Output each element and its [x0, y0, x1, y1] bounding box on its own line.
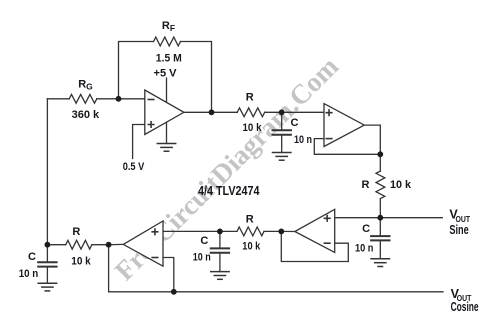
resistor RF zigzag: [154, 37, 181, 46]
resistor R1 10k zigzag: [237, 108, 265, 117]
svg-text:Cosine: Cosine: [451, 300, 479, 314]
svg-text:R: R: [246, 214, 254, 226]
svg-text:C: C: [291, 117, 299, 129]
svg-text:10 k: 10 k: [242, 241, 261, 253]
capacitor C3 stem lower: [219, 253, 221, 272]
U1B minus symbol: [326, 138, 332, 140]
node: U1D output: [106, 242, 112, 248]
wire: U1A output row to R 10k: [184, 111, 237, 113]
U1D minus symbol: [152, 257, 158, 259]
wire: sine output row: [335, 217, 443, 219]
svg-text:10 k: 10 k: [243, 122, 263, 134]
wire: cosine output row: [109, 291, 443, 293]
ground symbol C2: [371, 259, 389, 267]
ground symbol U1A: [157, 144, 175, 152]
wire: RG to op-amp U1A inverting input: [97, 98, 145, 100]
wire: R1 to op-amp U1B non-inverting input: [265, 111, 324, 113]
capacitor C2 stem lower: [379, 241, 381, 259]
svg-text:0.5 V: 0.5 V: [123, 161, 145, 173]
ground symbol C1: [273, 153, 291, 161]
wire: R3 to U1C output node: [264, 230, 281, 232]
node: RG/RF junction: [116, 96, 122, 102]
svg-text:360 k: 360 k: [72, 109, 100, 121]
wire: U1C output to node: [281, 230, 295, 232]
U1C plus symbol: [324, 216, 330, 222]
svg-text:R: R: [362, 179, 370, 191]
svg-text:4/4 TLV2474: 4/4 TLV2474: [198, 184, 260, 198]
wire: U1B inverting feedback loop: [314, 139, 380, 155]
wire: RF feedback loop right vertical: [181, 42, 212, 113]
ground symbol C3: [211, 272, 229, 280]
capacitor C3 plates: [211, 248, 229, 252]
wire: U1D output to node: [109, 243, 124, 245]
capacitor C4 plates: [38, 262, 56, 266]
node: sine output: [377, 215, 383, 221]
capacitor C1 plates: [273, 130, 291, 134]
wire: left rail vertical: [46, 99, 48, 245]
node: U1C output: [278, 229, 284, 235]
wire: U1B output down to node: [364, 125, 380, 154]
U1A plus symbol: [148, 122, 154, 128]
wire: RG row left: [47, 98, 69, 100]
U1B plus symbol: [326, 110, 332, 116]
svg-text:C: C: [362, 223, 370, 235]
op-amp U1B: [324, 104, 364, 147]
U1C minus symbol: [324, 242, 330, 244]
wire: U1A non-inverting input to 0.5V: [133, 125, 145, 159]
svg-text:C: C: [200, 235, 208, 247]
resistor RG zigzag: [69, 94, 97, 103]
svg-text:10 k: 10 k: [71, 256, 91, 268]
wire: R2 to sine node: [379, 199, 381, 218]
svg-text:10 n: 10 n: [19, 268, 39, 280]
svg-text:Sine: Sine: [449, 223, 468, 237]
U1A minus symbol: [148, 99, 154, 101]
wire: left rail to R4: [47, 244, 65, 246]
node: C1 junction: [279, 109, 285, 115]
node: C3 junction: [217, 229, 223, 235]
ground: U1A ground stem: [166, 122, 168, 143]
op-amp U1A: [145, 90, 184, 135]
svg-text:10 n: 10 n: [294, 134, 312, 146]
node: left rail bottom: [45, 242, 51, 248]
svg-text:1.5 M: 1.5 M: [156, 53, 182, 65]
svg-text:R: R: [246, 92, 254, 104]
svg-text:10 n: 10 n: [355, 243, 374, 255]
capacitor C1 stem lower: [281, 135, 283, 153]
svg-text:+5 V: +5 V: [154, 68, 178, 80]
wire: U1D inverting input down to cosine row: [163, 258, 174, 292]
capacitor C1 stem upper: [281, 112, 283, 130]
op-amp U1D (points left): [123, 221, 163, 266]
capacitor C4 stem lower: [46, 267, 48, 283]
supply +5V wire into U1A: [166, 78, 168, 102]
svg-text:C: C: [28, 251, 36, 263]
capacitor C4 stem upper: [46, 245, 48, 262]
wire: U1D output down leg: [108, 245, 110, 292]
ground symbol C4: [38, 283, 56, 291]
capacitor C2 plates: [371, 236, 389, 240]
svg-text:10 n: 10 n: [193, 252, 211, 264]
wire: R4 to U1D output node: [92, 244, 109, 246]
svg-text:10 k: 10 k: [390, 179, 412, 191]
wire: node to resistor R2: [379, 154, 381, 171]
resistor R3 10k zigzag: [237, 227, 264, 236]
resistor R2 10k vertical zigzag: [376, 171, 385, 199]
node: cosine feedback junction: [171, 289, 177, 295]
node: U1B output: [377, 151, 383, 157]
op-amp U1C (points left): [295, 209, 335, 252]
capacitor C3 stem upper: [219, 231, 221, 248]
wire: U1C inverting feedback loop: [281, 231, 348, 261]
node: U1A output: [209, 109, 215, 115]
wire: mid row U1D plus input to R3: [163, 230, 237, 232]
svg-text:RF: RF: [162, 20, 175, 33]
resistor R4 10k zigzag: [66, 240, 92, 249]
capacitor C2 stem upper: [379, 218, 381, 236]
svg-text:R: R: [72, 226, 80, 238]
svg-text:RG: RG: [78, 79, 93, 92]
U1D plus symbol: [152, 229, 158, 235]
wire: RF feedback loop left vertical: [119, 42, 154, 99]
